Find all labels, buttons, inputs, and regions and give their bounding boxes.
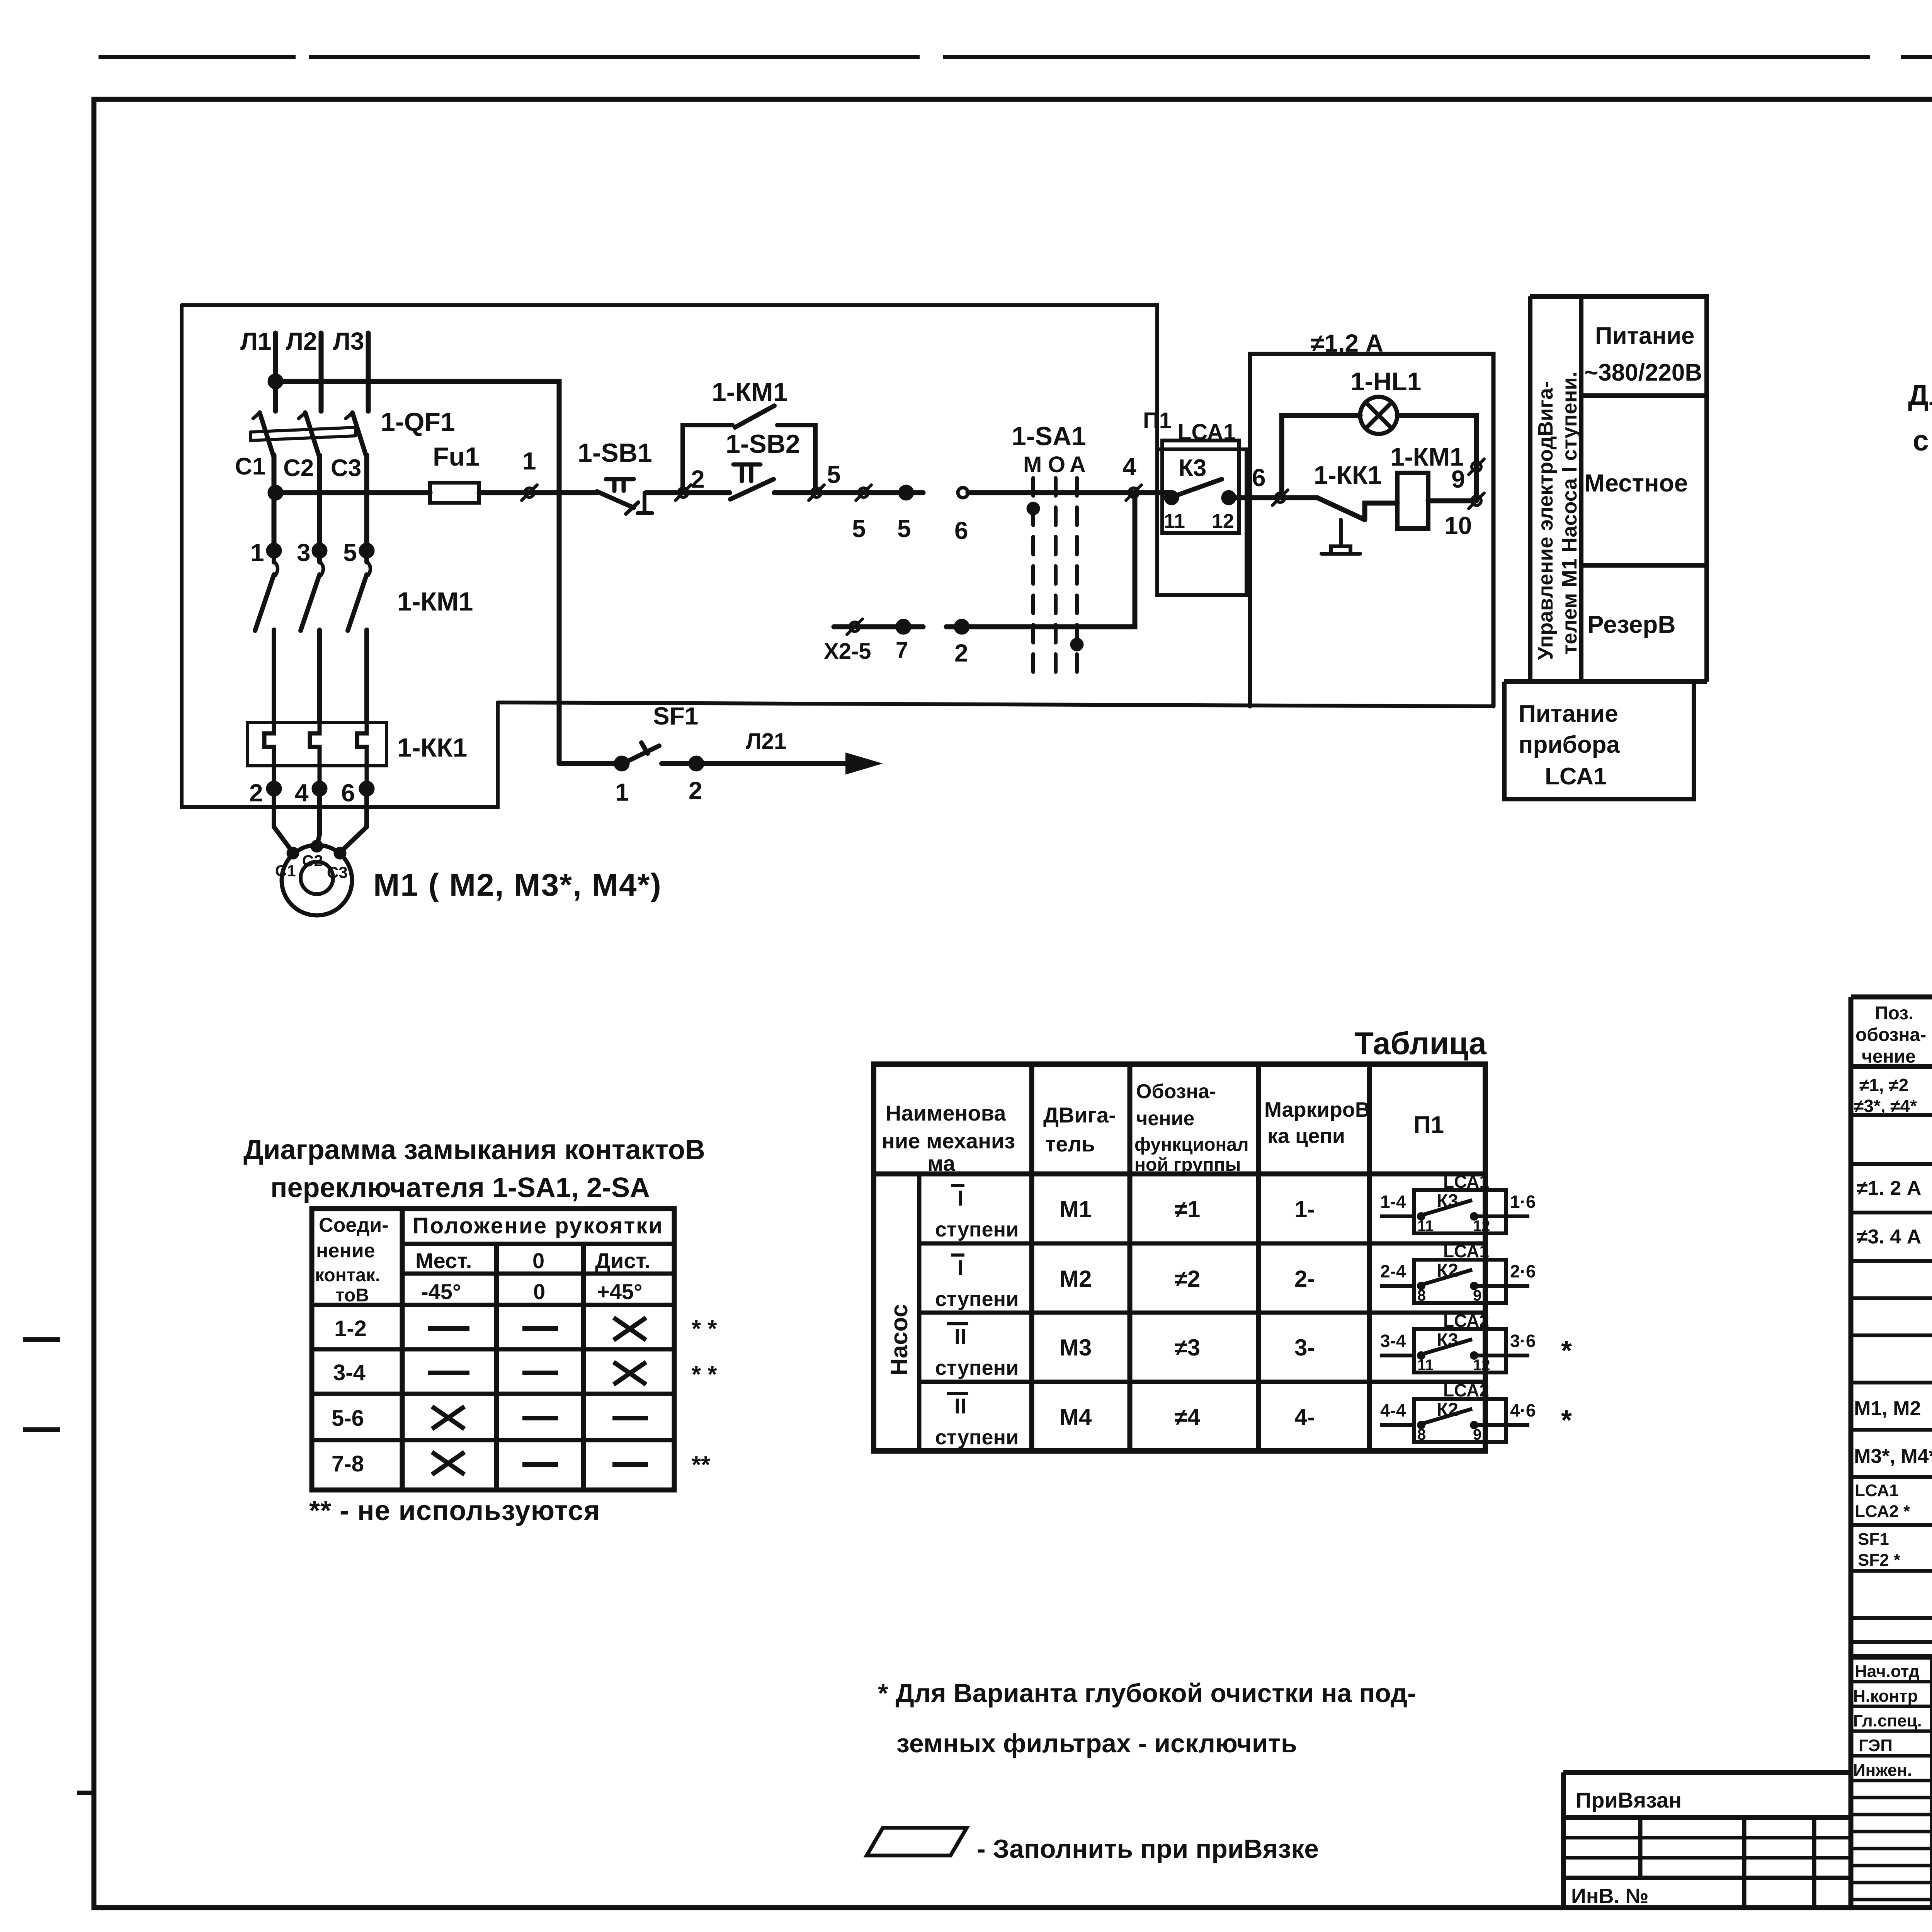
svg-text:1-4: 1-4	[1380, 1192, 1406, 1212]
svg-text:SF1: SF1	[1858, 1530, 1889, 1549]
svg-text:2: 2	[691, 465, 705, 493]
svg-text:7: 7	[896, 638, 908, 663]
svg-text:М4: М4	[1060, 1404, 1092, 1430]
svg-text:4: 4	[1122, 453, 1136, 481]
svg-text:≠4: ≠4	[1175, 1404, 1201, 1430]
svg-text:Х2-5: Х2-5	[824, 639, 871, 664]
svg-text:К2: К2	[1437, 1260, 1458, 1281]
svg-text:0: 0	[533, 1279, 545, 1304]
svg-text:Обозна-: Обозна-	[1136, 1080, 1216, 1103]
svg-text:Диаграмма замыкания контактоВ: Диаграмма замыкания контактоВ	[243, 1134, 705, 1165]
svg-text:1-НL1: 1-НL1	[1350, 367, 1421, 396]
svg-text:LСА1: LСА1	[1545, 763, 1607, 790]
svg-text:2-: 2-	[1294, 1266, 1315, 1292]
svg-text:8: 8	[1417, 1287, 1426, 1304]
svg-text:≠1: ≠1	[1175, 1196, 1200, 1222]
svg-text:Положение рукоятки: Положение рукоятки	[413, 1213, 663, 1238]
svg-text:прибора: прибора	[1519, 731, 1620, 758]
svg-text:5: 5	[343, 539, 357, 566]
svg-text:ма: ма	[927, 1151, 956, 1175]
svg-text:1-SB1: 1-SB1	[578, 438, 652, 468]
svg-text:≠1. 2 А: ≠1. 2 А	[1857, 1177, 1921, 1199]
svg-text:Насос: Насос	[886, 1304, 913, 1376]
svg-text:1·6: 1·6	[1510, 1192, 1536, 1212]
svg-text:Л1: Л1	[240, 327, 272, 355]
svg-text:1-QF1: 1-QF1	[381, 407, 455, 437]
svg-text:М3: М3	[1060, 1335, 1092, 1361]
svg-text:*: *	[1561, 1335, 1572, 1366]
svg-text:С2: С2	[302, 852, 323, 870]
svg-text:5: 5	[852, 515, 866, 543]
svg-text:чение: чение	[1862, 1046, 1916, 1067]
svg-text:1-2: 1-2	[334, 1316, 367, 1341]
svg-text:1-SА1: 1-SА1	[1012, 422, 1086, 451]
svg-text:Гл.спец.: Гл.спец.	[1853, 1711, 1922, 1730]
svg-text:РезерВ: РезерВ	[1587, 611, 1676, 638]
svg-text:М: М	[1023, 452, 1042, 477]
svg-text:I: I	[957, 1255, 964, 1280]
svg-text:4·6: 4·6	[1510, 1400, 1536, 1420]
svg-text:ступени: ступени	[935, 1356, 1019, 1379]
svg-text:С3: С3	[327, 863, 348, 881]
svg-text:≠1, ≠2: ≠1, ≠2	[1859, 1075, 1908, 1095]
svg-text:II: II	[954, 1324, 966, 1349]
svg-text:ступени: ступени	[935, 1287, 1019, 1311]
svg-text:Нач.отд: Нач.отд	[1855, 1662, 1920, 1681]
svg-text:Дист.: Дист.	[595, 1248, 651, 1273]
svg-text:ПриВязан: ПриВязан	[1576, 1788, 1682, 1812]
svg-text:3-4: 3-4	[1380, 1331, 1406, 1351]
svg-text:6: 6	[954, 517, 968, 544]
svg-text:1-КК1: 1-КК1	[1314, 461, 1382, 489]
svg-text:Питание: Питание	[1519, 701, 1618, 727]
svg-text:с изменениями согласно таблице: с изменениями согласно таблице.	[1913, 424, 1932, 457]
svg-text:1-SB2: 1-SB2	[726, 429, 800, 459]
svg-text:SF1: SF1	[653, 702, 698, 730]
svg-text:≠2: ≠2	[1175, 1266, 1200, 1292]
svg-text:Л3: Л3	[333, 327, 364, 355]
svg-text:ИнВ. №: ИнВ. №	[1571, 1884, 1649, 1908]
svg-text:3-4: 3-4	[333, 1360, 366, 1385]
svg-text:**: **	[692, 1452, 711, 1478]
svg-text:4-4: 4-4	[1380, 1400, 1406, 1420]
svg-text:9: 9	[1473, 1426, 1481, 1443]
svg-text:2: 2	[689, 777, 702, 804]
svg-text:11: 11	[1417, 1218, 1434, 1235]
svg-text:LСА2 *: LСА2 *	[1855, 1502, 1910, 1521]
svg-text:≠3*, ≠4*: ≠3*, ≠4*	[1854, 1096, 1917, 1116]
svg-text:1-: 1-	[1294, 1196, 1315, 1222]
svg-text:К2: К2	[1437, 1400, 1458, 1420]
svg-text:2: 2	[249, 779, 263, 807]
svg-text:Н.контр: Н.контр	[1853, 1687, 1918, 1706]
svg-text:2-4: 2-4	[1380, 1261, 1406, 1281]
svg-text:С2: С2	[283, 455, 314, 481]
svg-text:12: 12	[1212, 510, 1234, 532]
svg-text:Для дВигателей М2, М3*, М4* с: Для дВигателей М2, М3*, М4* схемы аналог…	[1908, 379, 1932, 411]
svg-text:3-: 3-	[1294, 1335, 1315, 1361]
svg-text:Поз.: Поз.	[1875, 1003, 1913, 1024]
svg-text:Управление электродВига-: Управление электродВига-	[1534, 381, 1557, 660]
svg-text:ной группы: ной группы	[1134, 1155, 1241, 1175]
svg-text:телем М1 Насоса I ступени.: телем М1 Насоса I ступени.	[1558, 371, 1581, 655]
svg-text:нение: нение	[316, 1240, 375, 1262]
svg-text:контак.: контак.	[315, 1265, 380, 1286]
svg-text:LСА2: LСА2	[1443, 1311, 1489, 1331]
svg-text:-45°: -45°	[421, 1279, 461, 1304]
svg-text:земных фильтрах - исключить: земных фильтрах - исключить	[896, 1729, 1297, 1758]
svg-text:тель: тель	[1045, 1132, 1095, 1156]
svg-text:1-КМ1: 1-КМ1	[712, 378, 787, 407]
svg-text:11: 11	[1164, 510, 1185, 532]
svg-text:К3: К3	[1437, 1191, 1458, 1211]
svg-text:Соеди-: Соеди-	[319, 1214, 389, 1236]
svg-text:К3: К3	[1437, 1330, 1458, 1350]
svg-text:LСА1: LСА1	[1443, 1172, 1489, 1192]
svg-text:* *: * *	[692, 1316, 717, 1342]
svg-text:10: 10	[1444, 512, 1472, 539]
svg-text:1-КМ1: 1-КМ1	[397, 587, 473, 616]
svg-text:М3*, М4*: М3*, М4*	[1854, 1445, 1932, 1468]
svg-text:чение: чение	[1136, 1107, 1194, 1130]
svg-text:*: *	[1561, 1405, 1572, 1436]
svg-text:12: 12	[1473, 1218, 1490, 1235]
svg-text:1: 1	[250, 539, 264, 566]
svg-text:~380/220В: ~380/220В	[1584, 359, 1702, 386]
svg-text:2: 2	[954, 639, 968, 667]
svg-text:- Заполнить при приВязке: - Заполнить при приВязке	[977, 1834, 1319, 1864]
svg-text:А: А	[1070, 452, 1086, 477]
svg-text:6: 6	[341, 779, 355, 807]
svg-text:9: 9	[1451, 465, 1465, 493]
svg-text:тоВ: тоВ	[335, 1285, 369, 1306]
svg-text:II: II	[954, 1394, 966, 1418]
svg-text:* Для Варианта глубокой очистк: * Для Варианта глубокой очистки на под-	[878, 1679, 1416, 1708]
svg-text:МаркироВ: МаркироВ	[1264, 1098, 1370, 1121]
svg-text:ГЭП: ГЭП	[1859, 1736, 1893, 1755]
svg-text:≠3. 4 А: ≠3. 4 А	[1857, 1226, 1921, 1248]
svg-text:С1: С1	[235, 453, 265, 480]
svg-text:Таблица: Таблица	[1354, 1026, 1487, 1061]
svg-text:8: 8	[1417, 1426, 1426, 1443]
svg-text:П1: П1	[1413, 1112, 1444, 1138]
svg-text:Инжен.: Инжен.	[1853, 1761, 1912, 1780]
svg-text:LСА1: LСА1	[1178, 420, 1236, 445]
svg-text:4: 4	[295, 779, 309, 807]
svg-text:функционал: функционал	[1134, 1134, 1249, 1155]
svg-text:7-8: 7-8	[332, 1451, 364, 1476]
svg-text:** - не используются: ** - не используются	[309, 1495, 600, 1526]
svg-text:М1 ( М2, М3*, М4*): М1 ( М2, М3*, М4*)	[373, 867, 662, 903]
svg-text:переключателя 1-SА1, 2-SА: переключателя 1-SА1, 2-SА	[270, 1172, 650, 1203]
svg-text:Л21: Л21	[746, 729, 786, 754]
svg-text:5-6: 5-6	[332, 1406, 364, 1431]
svg-text:М1, М2: М1, М2	[1854, 1397, 1921, 1420]
svg-text:+45°: +45°	[597, 1279, 642, 1304]
svg-text:LСА1: LСА1	[1443, 1241, 1489, 1261]
svg-text:ДВига-: ДВига-	[1043, 1103, 1116, 1127]
svg-text:* *: * *	[692, 1361, 717, 1388]
svg-text:5: 5	[897, 515, 911, 543]
svg-text:К3: К3	[1179, 455, 1206, 481]
svg-text:≠3: ≠3	[1175, 1335, 1200, 1361]
svg-text:2·6: 2·6	[1510, 1261, 1536, 1281]
svg-text:0: 0	[532, 1248, 544, 1273]
svg-text:4-: 4-	[1294, 1404, 1315, 1430]
svg-text:Питание: Питание	[1595, 323, 1695, 349]
svg-text:5: 5	[827, 461, 841, 488]
svg-text:С3: С3	[331, 455, 361, 481]
svg-text:Местное: Местное	[1584, 469, 1688, 497]
svg-text:1: 1	[522, 447, 536, 475]
svg-text:≠1,2 А: ≠1,2 А	[1311, 329, 1383, 357]
svg-text:М2: М2	[1060, 1266, 1092, 1292]
svg-text:3·6: 3·6	[1510, 1331, 1536, 1351]
svg-text:LСА1: LСА1	[1855, 1481, 1899, 1500]
svg-text:SF2 *: SF2 *	[1858, 1551, 1901, 1570]
svg-text:12: 12	[1473, 1357, 1490, 1374]
svg-text:6: 6	[1252, 464, 1266, 492]
svg-text:I: I	[957, 1186, 964, 1210]
svg-text:ка цепи: ка цепи	[1267, 1124, 1345, 1148]
svg-text:С1: С1	[275, 862, 296, 880]
svg-text:Наименова: Наименова	[886, 1101, 1006, 1125]
svg-text:1-КК1: 1-КК1	[397, 733, 467, 762]
svg-text:11: 11	[1417, 1357, 1434, 1374]
svg-text:ние механиз: ние механиз	[882, 1129, 1015, 1153]
svg-text:3: 3	[297, 539, 311, 566]
svg-text:9: 9	[1473, 1287, 1481, 1304]
svg-text:LСА2: LСА2	[1443, 1380, 1489, 1400]
svg-text:1: 1	[615, 778, 629, 806]
svg-text:П1: П1	[1143, 408, 1172, 433]
svg-text:О: О	[1048, 452, 1065, 477]
svg-text:Fu1: Fu1	[433, 442, 480, 471]
svg-text:ступени: ступени	[935, 1218, 1019, 1241]
svg-text:ступени: ступени	[935, 1426, 1019, 1449]
svg-text:обозна-: обозна-	[1855, 1025, 1926, 1045]
svg-text:Мест.: Мест.	[415, 1248, 472, 1273]
svg-text:Л2: Л2	[286, 327, 317, 355]
svg-text:М1: М1	[1060, 1196, 1092, 1222]
